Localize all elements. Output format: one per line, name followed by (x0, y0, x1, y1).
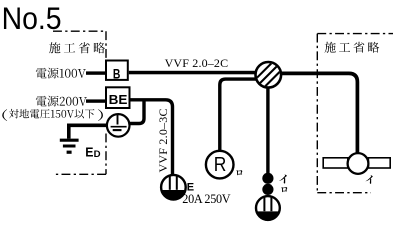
lamp receptacle R (206, 151, 234, 179)
switch イ (dot) (262, 173, 273, 184)
label 施工省略 (right) (325, 42, 380, 53)
svg-text:20A 250V: 20A 250V (182, 192, 230, 206)
receptacle outlet below switches (256, 196, 280, 220)
label 電源100V (36, 68, 86, 79)
label 電源200V (36, 96, 87, 107)
breaker BE (earth-leakage breaker) (106, 87, 130, 108)
svg-text:VVF 2.0–3C: VVF 2.0–3C (156, 109, 170, 173)
svg-text:VVF 2.0–2C: VVF 2.0–2C (165, 56, 229, 70)
label イ (switch) (279, 175, 287, 184)
label ロ (switch) (281, 187, 287, 192)
wire: 200V source stub (86, 99, 106, 102)
wire: junction to lamp (right) (280, 73, 357, 153)
wire: junction down to switches (266, 87, 269, 173)
receptacle outlet E 20A 250V (161, 175, 186, 200)
svg-text:D: D (94, 149, 101, 160)
wire: junction branch to receptacle R (220, 79, 257, 151)
label ロ (for R) (236, 170, 242, 175)
wire: earth terminal branch joining BE output (128, 101, 144, 124)
svg-text:R: R (214, 154, 227, 176)
wire: 100V line B to junction box (129, 71, 256, 75)
earth terminal ET (circle with earth symbol) (107, 114, 130, 137)
label ED (earth electrode) (85, 145, 100, 159)
switch ロ (dot) (262, 184, 273, 195)
lamp fixture (circle with side flanges) (323, 153, 390, 174)
label イ (lamp) (366, 175, 373, 183)
left construction-omitted boundary (dash-dot box) (53, 31, 106, 174)
breaker B (circuit breaker) (106, 61, 128, 83)
svg-text:B: B (113, 67, 121, 83)
label (対地電圧150V以下) (2, 109, 103, 121)
svg-text:BE: BE (109, 92, 128, 107)
right construction-omitted boundary (dash-dot box) (317, 34, 393, 193)
junction box (hatched circle) (250, 56, 287, 93)
svg-text:E: E (85, 145, 93, 159)
wire: VVF 2.0-3C from BE down to outlet E (131, 100, 173, 176)
label 施工省略 (left) (49, 42, 105, 53)
wire: earth terminal to ground electrode (69, 125, 108, 138)
wire: 100V source stub (86, 71, 106, 74)
svg-text:No.5: No.5 (2, 0, 62, 36)
ground electrode symbol (60, 140, 79, 152)
